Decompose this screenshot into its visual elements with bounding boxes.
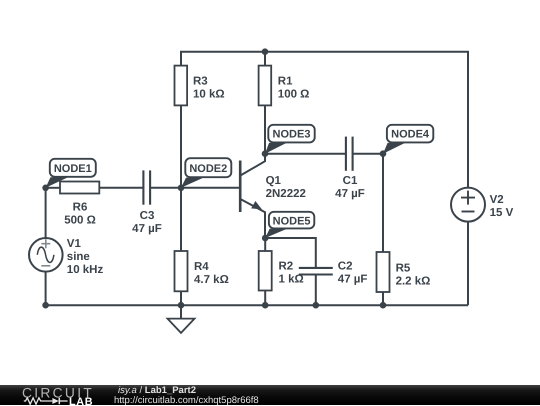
source V1: [29, 238, 103, 276]
wire C2 bottom: [315, 275, 317, 306]
source V2: [451, 188, 514, 222]
wire R1 bottom to NODE3: [264, 105, 266, 153]
CircuitLab logo resistor zigzag: [24, 397, 53, 403]
wire bottom rail: [46, 304, 468, 306]
resistor R4: [175, 251, 229, 291]
svg-text:100 Ω: 100 Ω: [278, 88, 310, 100]
svg-text:NODE1: NODE1: [54, 163, 92, 175]
wire NODE2 to R4: [180, 188, 182, 251]
wire NODE5 to C2: [265, 238, 316, 268]
svg-text:47 µF: 47 µF: [338, 274, 368, 286]
svg-text:47 µF: 47 µF: [335, 188, 365, 200]
node junction dot R5 bottom: [380, 302, 387, 309]
ground: [168, 305, 195, 333]
wire input to R6: [46, 187, 60, 189]
node junction dot C2 bottom: [313, 302, 320, 309]
svg-text:10 kHz: 10 kHz: [67, 264, 104, 276]
wire V1 bottom: [45, 272, 47, 306]
capacitor C3: [132, 170, 162, 235]
svg-text:47 µF: 47 µF: [132, 223, 162, 235]
node junction dot NODE3: [262, 150, 269, 157]
svg-text:V2: V2: [490, 194, 504, 206]
wire R6 to C3: [99, 187, 143, 189]
svg-text:R1: R1: [278, 75, 293, 87]
svg-text:10 kΩ: 10 kΩ: [193, 88, 225, 100]
wire NODE5 to R2: [264, 238, 266, 251]
node NODE4: [383, 125, 433, 154]
node NODE1: [46, 159, 96, 188]
resistor R3: [175, 66, 225, 106]
capacitor C1: [335, 137, 365, 201]
node junction dot NODE1: [42, 185, 49, 192]
node NODE3: [265, 125, 315, 154]
svg-text:R5: R5: [396, 262, 411, 274]
svg-text:C1: C1: [343, 175, 358, 187]
svg-text:R6: R6: [73, 201, 88, 213]
wire top rail: [181, 52, 468, 188]
node NODE5: [265, 212, 314, 238]
svg-text:NODE5: NODE5: [273, 215, 311, 227]
transistor Q1: [240, 154, 306, 238]
wire V2 bottom: [467, 222, 469, 305]
wire NODE3 to C1: [265, 153, 346, 155]
wire R1 top: [264, 52, 266, 66]
wire C1 to NODE4: [353, 153, 383, 155]
svg-text:R2: R2: [279, 261, 294, 273]
node junction dot R1 top: [262, 48, 269, 55]
wire R4 bottom: [180, 291, 182, 305]
svg-text:http://circuitlab.com/cxhqt5p8: http://circuitlab.com/cxhqt5p8r66f8: [114, 395, 259, 406]
svg-text:NODE2: NODE2: [189, 163, 227, 175]
svg-text:4.7 kΩ: 4.7 kΩ: [194, 274, 229, 286]
node junction dot NODE4: [380, 150, 387, 157]
node junction dot R2 bottom: [262, 302, 269, 309]
svg-text:R3: R3: [193, 75, 208, 87]
resistor R6: [60, 182, 99, 227]
CircuitLab logo diode: [52, 398, 58, 404]
wire C3 to Q1 base: [150, 187, 240, 189]
wire V1 top: [45, 188, 47, 238]
node NODE2: [181, 158, 231, 188]
svg-text:sine: sine: [67, 251, 90, 263]
svg-text:V1: V1: [67, 238, 82, 250]
footer bar: [0, 385, 540, 406]
wire NODE4 to R5: [382, 154, 384, 252]
svg-text:NODE3: NODE3: [273, 129, 311, 141]
svg-text:isy.a / Lab1_Part2: isy.a / Lab1_Part2: [118, 385, 196, 396]
svg-text:C3: C3: [140, 210, 155, 222]
resistor R2: [259, 251, 304, 291]
svg-text:NODE4: NODE4: [391, 129, 430, 141]
svg-text:LAB: LAB: [69, 396, 93, 406]
node junction dot NODE2: [178, 185, 185, 192]
wire R3 bottom to NODE2: [180, 105, 182, 187]
capacitor C2: [299, 261, 368, 286]
svg-text:15 V: 15 V: [490, 207, 514, 219]
resistor R1: [259, 66, 310, 106]
svg-text:2N2222: 2N2222: [266, 188, 306, 200]
svg-text:R4: R4: [194, 261, 209, 273]
svg-text:C2: C2: [338, 261, 353, 273]
resistor R5: [377, 252, 431, 292]
svg-text:Q1: Q1: [266, 175, 282, 187]
wire R5 bottom: [382, 292, 384, 305]
svg-text:500 Ω: 500 Ω: [64, 214, 96, 226]
node junction dot NODE5: [262, 235, 269, 242]
svg-text:2.2 kΩ: 2.2 kΩ: [396, 275, 431, 287]
wire R2 bottom: [264, 291, 266, 306]
node junction dot ground: [178, 302, 185, 309]
node junction dot V1 bottom: [42, 302, 49, 309]
